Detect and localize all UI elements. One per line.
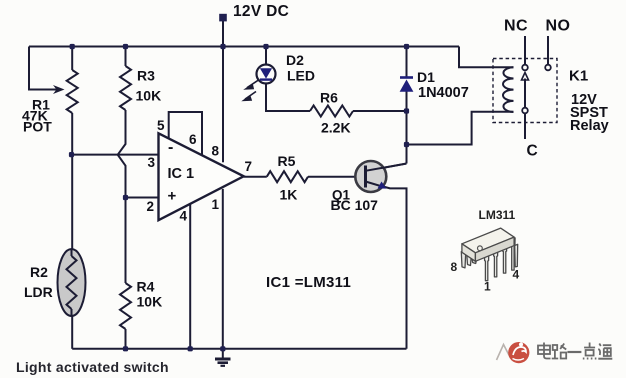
svg-text:12V DC: 12V DC bbox=[233, 3, 289, 20]
svg-text:-: - bbox=[168, 139, 173, 156]
svg-text:LDR: LDR bbox=[24, 284, 53, 300]
svg-text:C: C bbox=[527, 143, 538, 160]
svg-text:LED: LED bbox=[287, 68, 315, 84]
svg-text:LM311: LM311 bbox=[479, 208, 516, 222]
svg-text:NC: NC bbox=[504, 18, 528, 35]
svg-text:R5: R5 bbox=[278, 153, 296, 169]
svg-text:1: 1 bbox=[484, 280, 491, 294]
svg-text:K1: K1 bbox=[569, 68, 588, 85]
svg-text:8: 8 bbox=[451, 260, 458, 274]
svg-text:1N4007: 1N4007 bbox=[418, 85, 469, 101]
svg-text:R3: R3 bbox=[137, 68, 155, 84]
svg-text:2.2K: 2.2K bbox=[321, 120, 351, 136]
svg-text:NO: NO bbox=[546, 18, 571, 35]
svg-text:R6: R6 bbox=[320, 90, 338, 106]
svg-text:5: 5 bbox=[157, 118, 165, 133]
svg-text:4: 4 bbox=[180, 209, 188, 224]
svg-text:IC 1: IC 1 bbox=[168, 166, 195, 182]
svg-text:POT: POT bbox=[23, 119, 52, 135]
svg-text:Relay: Relay bbox=[570, 118, 609, 134]
svg-text:8: 8 bbox=[212, 144, 220, 159]
svg-text:6: 6 bbox=[189, 132, 197, 147]
svg-text:1K: 1K bbox=[280, 187, 298, 203]
svg-text:BC 107: BC 107 bbox=[331, 197, 379, 213]
svg-text:Light activated switch: Light activated switch bbox=[16, 359, 169, 375]
svg-text:10K: 10K bbox=[136, 88, 162, 104]
svg-text:4: 4 bbox=[513, 268, 520, 282]
svg-text:2: 2 bbox=[147, 199, 155, 214]
svg-text:3: 3 bbox=[148, 155, 156, 170]
svg-text:R4: R4 bbox=[137, 279, 155, 295]
svg-text:1: 1 bbox=[212, 197, 220, 212]
svg-text:10K: 10K bbox=[137, 294, 163, 310]
svg-text:IC1 =LM311: IC1 =LM311 bbox=[266, 274, 351, 291]
svg-text:7: 7 bbox=[245, 159, 253, 174]
svg-text:R2: R2 bbox=[30, 264, 48, 280]
svg-text:+: + bbox=[168, 188, 177, 205]
svg-text:D2: D2 bbox=[286, 52, 304, 68]
svg-text:D1: D1 bbox=[417, 69, 435, 85]
